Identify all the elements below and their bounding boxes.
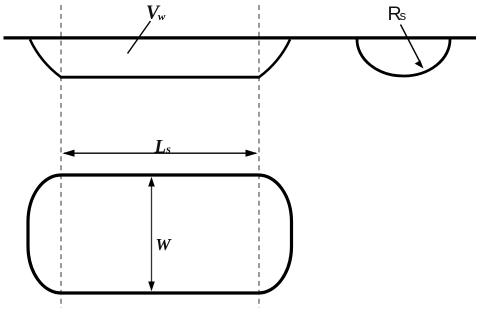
arrowhead W top: [148, 177, 155, 187]
dashed projection line right: [258, 5, 260, 308]
svg-text:W: W: [156, 235, 173, 254]
leader line for Vw: [128, 21, 151, 54]
spherical recess Rs: [357, 40, 450, 77]
dimension arrow Ls: [64, 152, 256, 154]
dimension arrow W: [151, 180, 153, 289]
dashed projection line left: [60, 5, 62, 308]
well bottom line: [60, 76, 260, 79]
svg-text:Vw: Vw: [146, 3, 166, 24]
surface line: [4, 36, 477, 39]
stadium diffusion outline: [28, 175, 292, 293]
svg-text:Ls: Ls: [154, 137, 172, 158]
well right sidewall curve: [259, 40, 290, 78]
arrow leader Rs: [401, 25, 421, 64]
arrowhead Ls left: [63, 150, 75, 157]
well left sidewall curve: [30, 40, 61, 78]
svg-text:Rs: Rs: [388, 3, 407, 25]
arrowhead Rs: [415, 60, 424, 68]
arrowhead W bottom: [148, 282, 155, 292]
arrowhead Ls right: [246, 150, 258, 157]
